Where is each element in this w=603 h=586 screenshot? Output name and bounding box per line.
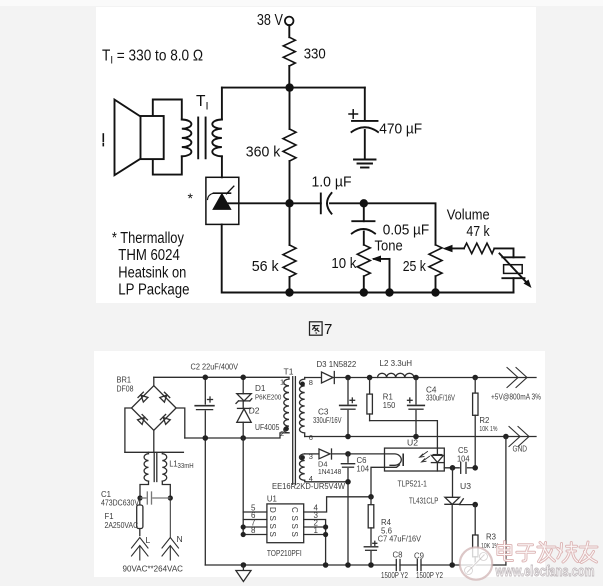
wire U3 ref to R2 column <box>460 504 476 506</box>
primary bottom rail <box>205 564 506 566</box>
svg-text:U1: U1 <box>267 495 278 504</box>
wire R330 to node A <box>288 66 290 88</box>
svg-text:D: D <box>268 507 277 513</box>
capacitor C9 1500P <box>417 560 421 571</box>
svg-text:TOP210PFI: TOP210PFI <box>267 548 302 558</box>
speaker driver <box>141 116 164 159</box>
svg-text:90VAC**264VAC: 90VAC**264VAC <box>123 564 184 574</box>
label C9 <box>414 552 443 581</box>
label 330 <box>304 46 326 63</box>
wire regulator to node B <box>227 202 290 204</box>
pot 10k wiper arrow <box>372 256 390 263</box>
label Volume <box>447 207 490 224</box>
node C junction dot <box>285 288 293 296</box>
diode D3 1N5822 <box>322 372 335 384</box>
svg-text:L: L <box>146 535 151 545</box>
svg-text:F1: F1 <box>105 512 115 521</box>
transformer TI primary winding <box>182 120 192 157</box>
svg-text:8: 8 <box>251 526 256 535</box>
caption figure number 7 <box>324 321 332 338</box>
line input L arrow <box>132 538 149 561</box>
capacitor 0.05uF <box>352 221 375 233</box>
svg-text:S: S <box>290 532 299 537</box>
speaker horn <box>115 100 141 176</box>
label TI = 330 to 8.0 ohm <box>102 48 203 67</box>
wire R56k to bottom bus <box>289 277 291 293</box>
wire C470 to ground <box>364 130 366 159</box>
potentiometer 25k <box>429 245 442 276</box>
wire node B down to R56k <box>289 203 291 245</box>
wire choke right to N column <box>162 481 170 498</box>
node R1 top dot <box>367 375 373 381</box>
node C5 right dot <box>472 465 478 471</box>
wire wiper 10k to bus <box>389 259 391 293</box>
wire node D to volume branch <box>364 203 436 245</box>
wire AC horizontal to choke <box>125 451 183 453</box>
U1 pin8 stub <box>243 534 267 536</box>
wire rail down to transformer secondary <box>221 88 223 120</box>
svg-text:L2 3.3uH: L2 3.3uH <box>380 358 413 368</box>
wire C1.0uF to node D <box>330 202 364 204</box>
38V supply label <box>257 12 284 29</box>
U1 pin1 stub <box>304 534 326 536</box>
svg-text:U3: U3 <box>460 481 471 491</box>
resistor 47k <box>464 243 494 253</box>
node C2 bus dot <box>203 435 209 441</box>
label 10k <box>331 255 356 272</box>
transformer TI label <box>196 93 209 113</box>
svg-text:S: S <box>268 524 277 529</box>
U2 LED <box>431 448 443 471</box>
svg-text:8: 8 <box>309 378 313 387</box>
regulator U1 package box <box>206 177 239 224</box>
svg-text:D2: D2 <box>249 406 260 416</box>
label C7 47uF/16V <box>378 534 421 544</box>
label D2 UF4005 <box>249 406 280 432</box>
label D3 1N5822 <box>317 359 357 369</box>
label 360k <box>246 144 281 161</box>
transformer TI core <box>198 118 205 159</box>
primary ground symbol <box>236 565 251 582</box>
svg-text:330uF/16V: 330uF/16V <box>426 394 455 403</box>
wire R1 bottom to opto LED <box>370 421 438 449</box>
wire transformer secondary to regulator box <box>221 156 223 177</box>
bridge diode upper-right <box>159 392 169 402</box>
svg-text:TL431CLP: TL431CLP <box>409 496 439 506</box>
optocoupler U2 box <box>385 448 445 471</box>
svg-text:330uF/16V: 330uF/16V <box>313 416 342 425</box>
svg-text:1N4148: 1N4148 <box>318 467 341 476</box>
label GND <box>513 445 528 454</box>
label BR1 DF08 <box>117 376 134 394</box>
label D4 1N4148 <box>318 460 341 477</box>
node D1D2 bus dot <box>240 435 246 441</box>
svg-text:C9: C9 <box>414 552 425 561</box>
svg-text:10 k: 10 k <box>331 255 356 272</box>
label F1 2A250VAC <box>105 512 139 530</box>
label R4 5.6 <box>381 518 393 536</box>
T1 pin6 label <box>309 433 313 442</box>
svg-text:EE16R2KD-UR5V4W: EE16R2KD-UR5V4W <box>272 482 345 491</box>
svg-text:7: 7 <box>324 321 332 338</box>
svg-text:C2 22uF/400V: C2 22uF/400V <box>191 362 239 372</box>
asterisk mark <box>188 190 194 206</box>
T1 polarity dot secondary <box>300 382 305 387</box>
label EE16R2KD-UR5V4W <box>272 482 345 491</box>
svg-text:GND: GND <box>513 445 528 454</box>
fuse F1 <box>137 498 143 536</box>
wire D1D2 column to U1 pins <box>242 438 244 535</box>
wire C5 node to U3 <box>452 468 454 498</box>
transformer TI primary loop wiring <box>153 100 182 175</box>
svg-text:DF08: DF08 <box>117 385 134 394</box>
wire U3 anode to bottom rail <box>451 504 453 565</box>
U1 pin2 stub <box>304 526 326 528</box>
svg-text:10K 1%: 10K 1% <box>479 424 497 433</box>
wire top rail <box>222 87 365 89</box>
capacitor 470uF plus mark <box>349 110 358 118</box>
primary top rail wire <box>154 376 289 378</box>
svg-text:56 k: 56 k <box>252 258 279 275</box>
resistor 56k <box>283 245 296 277</box>
node C1 left dot <box>137 495 142 500</box>
output +5V arrow <box>507 368 527 388</box>
node U3 ref dot <box>472 502 478 508</box>
label 90VAC-264VAC <box>123 564 184 574</box>
label R3 10K 1% <box>481 533 499 551</box>
potentiometer 10k <box>357 245 370 276</box>
svg-text:C8: C8 <box>393 551 404 560</box>
label C2 22uF/400V <box>191 362 239 372</box>
label U3 <box>460 481 471 491</box>
node C5 left dot <box>450 465 456 471</box>
transformer TI secondary winding <box>212 120 222 157</box>
line input N arrow <box>162 498 179 560</box>
svg-text:BR1: BR1 <box>117 376 132 385</box>
label C1 473DC630V <box>101 490 140 508</box>
T1 pin2 label <box>280 429 284 438</box>
caption figure 7 glyph <box>310 322 323 335</box>
label R1 150 <box>383 393 396 411</box>
label TOP210PFI <box>267 548 302 558</box>
label C4 330uF/16V <box>426 386 455 403</box>
svg-text:360 k: 360 k <box>246 144 281 161</box>
svg-text:*: * <box>188 190 194 206</box>
svg-text:S: S <box>268 516 277 521</box>
U1 pin7 stub <box>243 526 267 528</box>
choke L1 core <box>154 453 157 482</box>
T1 pin8 label <box>309 378 313 387</box>
inductor L2 3.3uH <box>378 373 414 377</box>
node C4 bottom dot <box>413 434 419 440</box>
wire aux return to C6 column <box>305 480 348 482</box>
svg-text:C: C <box>290 507 299 513</box>
transformer T1 secondary winding <box>300 378 305 437</box>
U1 internal pin names <box>268 507 299 537</box>
svg-text:2A250VAC: 2A250VAC <box>105 521 139 530</box>
label 47k <box>466 223 490 240</box>
svg-text:150: 150 <box>383 401 396 410</box>
node E junction dot <box>360 288 368 296</box>
capacitor C6 104 <box>341 454 354 565</box>
capacitor 1.0uF <box>321 193 332 214</box>
svg-text:330: 330 <box>304 46 326 63</box>
label U2 <box>407 438 418 448</box>
svg-text:6: 6 <box>309 433 313 442</box>
pot 25k wiper arrow <box>443 245 465 252</box>
label 56k <box>252 258 279 275</box>
diode D4 1N4148 <box>319 449 385 459</box>
capacitor C7 47uF <box>364 541 377 565</box>
node C4 top dot <box>413 375 419 381</box>
ground <box>354 160 376 168</box>
capacitor C1 across line <box>140 492 170 504</box>
clamp diode D2 UF4005 <box>237 401 251 438</box>
svg-text:47 k: 47 k <box>466 223 490 240</box>
U1 right pin labels <box>314 504 319 536</box>
node R2 top dot <box>472 375 478 381</box>
svg-text:S: S <box>268 532 277 537</box>
38V terminal circle <box>285 17 294 26</box>
wire node B to C1.0uF <box>290 202 321 204</box>
label C8 <box>381 551 408 581</box>
wire regulator box to bottom bus <box>222 224 290 292</box>
U1 pin4 wire to control <box>304 497 371 512</box>
T1 polarity dot aux <box>300 455 305 460</box>
node G junction dot <box>431 288 439 296</box>
node A junction dot <box>285 83 293 91</box>
svg-text:104: 104 <box>457 455 470 464</box>
wire rail to C470 <box>364 88 366 121</box>
svg-text:UF4005: UF4005 <box>255 423 280 432</box>
label N <box>177 534 183 544</box>
U2 coupling arrows <box>420 452 430 463</box>
svg-text:D3 1N5822: D3 1N5822 <box>317 359 357 369</box>
wire U2 emitter to control line <box>371 467 385 497</box>
capacitor 470uF <box>352 121 379 132</box>
svg-text:P6KE200: P6KE200 <box>255 393 281 402</box>
node C1 right dot <box>168 495 173 500</box>
wire node D down to C0.05 <box>363 203 365 221</box>
label 470uF <box>379 121 422 138</box>
svg-text:* Thermalloy: * Thermalloy <box>112 230 184 247</box>
svg-text:S: S <box>290 516 299 521</box>
node C3 top dot <box>345 375 351 381</box>
capacitor C2 <box>195 377 214 565</box>
svg-text:+5V@800mA 3%: +5V@800mA 3% <box>491 393 541 402</box>
wire choke left to C1 node <box>140 481 149 498</box>
node U1 pin7 dot <box>241 524 246 529</box>
capacitor C4 <box>408 378 425 437</box>
node B junction dot <box>285 199 293 207</box>
resistor 330 <box>283 37 295 66</box>
svg-text:Tone: Tone <box>375 238 403 255</box>
svg-text:Heatsink on: Heatsink on <box>118 264 186 281</box>
svg-text:C7 47uF/16V: C7 47uF/16V <box>378 534 421 544</box>
node D1D2 top dot <box>240 375 246 381</box>
label 1.0uF <box>312 174 352 191</box>
svg-text:104: 104 <box>357 465 370 474</box>
piezo element <box>502 257 524 278</box>
label 0.05uF <box>383 222 429 239</box>
resistor R4 5.6 <box>368 497 374 546</box>
node GND branch dot <box>503 434 509 440</box>
node aux return dot <box>345 479 351 485</box>
shunt regulator U3 TL431CLP <box>445 497 463 504</box>
secondary top rail <box>305 377 536 379</box>
wire pot 25k to bus <box>435 276 437 292</box>
label L1 33mH <box>169 459 194 471</box>
label T1 <box>284 367 294 377</box>
node U1 pin1 dot <box>323 532 328 537</box>
label C3 330uF/16V <box>313 408 342 426</box>
svg-text:D1: D1 <box>255 383 266 393</box>
wire bridge minus leg to bus <box>176 408 185 438</box>
svg-text:1.0 µF: 1.0 µF <box>312 174 352 191</box>
svg-text:Volume: Volume <box>447 207 490 224</box>
wire 38V to R330 <box>288 25 290 37</box>
wire bridge bottom leg <box>153 430 155 452</box>
piezo adjustment arrow <box>500 254 532 289</box>
svg-text:TI = 330 to 8.0 Ω: TI = 330 to 8.0 Ω <box>102 48 203 67</box>
resistor 360k <box>283 129 296 161</box>
svg-text:LP Package: LP Package <box>118 282 189 299</box>
svg-text:THM 6024: THM 6024 <box>118 247 180 264</box>
node C6 top dot <box>345 451 351 457</box>
bottom rail node dots <box>241 562 455 568</box>
bridge diode lower-right <box>160 414 170 424</box>
svg-text:1500P Y2: 1500P Y2 <box>381 571 408 580</box>
label R2 10K 1% <box>479 416 497 433</box>
node U1 pin2 dot <box>323 524 328 529</box>
node F junction dot <box>385 288 393 296</box>
label 25k <box>403 258 427 275</box>
transformer T1 core <box>293 377 296 485</box>
T1 pin1 label <box>280 378 284 387</box>
svg-text:1: 1 <box>314 526 319 535</box>
node C3 bottom dot <box>345 434 351 440</box>
label L <box>146 535 151 545</box>
note Thermalloy heatsink <box>112 230 190 299</box>
node C2 top dot <box>203 375 209 381</box>
wire pot 10k to bus <box>363 276 365 292</box>
capacitor C8 1500P <box>396 560 400 571</box>
choke L1 right winding <box>162 452 166 481</box>
node D junction dot <box>360 199 368 207</box>
label TLP521-1 <box>398 479 428 489</box>
label C5 104 <box>457 446 470 464</box>
resistor R3 10K <box>473 505 478 565</box>
svg-text:TLP521-1: TLP521-1 <box>398 479 428 489</box>
wire C0.05 to pot 10k <box>363 232 365 245</box>
label Tone <box>375 238 403 255</box>
svg-text:1: 1 <box>280 378 284 387</box>
controller U1 box <box>267 504 304 543</box>
top schematic white panel <box>96 7 536 303</box>
wire bridge AC left leg <box>125 408 132 452</box>
wire bridge plus to top rail <box>153 377 155 385</box>
svg-text:N: N <box>177 534 183 544</box>
svg-text:1500P Y2: 1500P Y2 <box>416 571 443 580</box>
node R4 top dot <box>368 494 374 500</box>
label L2 3.3uH <box>380 358 413 368</box>
primary lower bus wire <box>185 433 289 438</box>
wire GND branch down <box>505 437 507 566</box>
bridge diode upper-left <box>138 392 148 402</box>
svg-text:25 k: 25 k <box>403 258 427 275</box>
bottom schematic white panel <box>94 351 545 577</box>
T1 polarity dot primary <box>284 426 289 431</box>
wire R360k to node B <box>289 161 291 203</box>
output GND arrow <box>509 427 529 447</box>
capacitor C5 104 <box>444 462 475 473</box>
bridge diode lower-left <box>137 415 147 425</box>
wire 47k to element <box>494 248 513 257</box>
svg-text:33mH: 33mH <box>178 461 194 470</box>
transformer T1 primary winding <box>284 377 289 433</box>
svg-text:2: 2 <box>280 429 284 438</box>
watermark url text <box>495 563 595 580</box>
clamp diode D1 P6KE200 <box>236 377 252 403</box>
svg-text:T1: T1 <box>284 367 294 377</box>
wire element to bus <box>513 278 515 292</box>
secondary ground rail <box>305 436 536 438</box>
U1 left pin labels <box>251 504 256 536</box>
svg-text:www.elecfans.com: www.elecfans.com <box>495 563 595 580</box>
watermark logo circle <box>460 547 492 579</box>
U1 pin6 stub <box>243 519 267 521</box>
label TL431CLP <box>409 496 439 506</box>
svg-text:0.05 µF: 0.05 µF <box>383 222 429 239</box>
svg-text:470 µF: 470 µF <box>379 121 422 138</box>
label +5V output <box>491 393 541 402</box>
node U1 pin8 dot <box>241 532 246 537</box>
T1 pin4 label <box>309 474 313 483</box>
wire D4 rail <box>305 453 319 455</box>
label D1 P6KE200 <box>255 383 281 402</box>
bridge rectifier BR1 diamond <box>132 386 177 431</box>
bottom bus wire <box>290 292 514 294</box>
wire node A down to R360k <box>289 88 291 129</box>
regulator U1 shunt device symbol <box>208 186 234 209</box>
svg-text:U2: U2 <box>407 438 418 448</box>
watermark brand glyphs <box>498 542 597 563</box>
transformer T1 aux winding <box>300 454 305 480</box>
svg-text:38 V: 38 V <box>257 12 284 29</box>
stray mark <box>102 134 104 146</box>
U1 pin3 stub <box>304 520 326 566</box>
resistor R2 10K <box>473 378 478 468</box>
choke L1 left winding <box>144 452 148 481</box>
svg-text:473DC630V: 473DC630V <box>101 499 140 508</box>
T1 pin3 label <box>309 452 313 461</box>
label U1 <box>267 495 278 504</box>
label C6 104 <box>357 456 370 474</box>
U1 pin5 stub <box>243 511 267 513</box>
capacitor C3 <box>340 378 357 437</box>
resistor R1 150 <box>367 378 373 421</box>
svg-text:S: S <box>290 524 299 529</box>
U2 phototransistor <box>385 454 404 467</box>
